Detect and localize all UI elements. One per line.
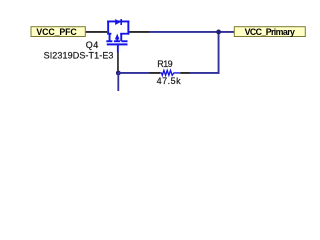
substrate arrow head [115, 34, 120, 40]
right jog [120, 33, 129, 35]
wire R19 to riser [190, 72, 220, 74]
svg-text:VCC_PFC: VCC_PFC [36, 27, 77, 37]
power port VCC_Primary [234, 27, 305, 37]
gate bar [107, 43, 128, 45]
body diode loop top [107, 21, 129, 23]
transistor Q4 [106, 19, 129, 53]
svg-text:47.5k: 47.5k [157, 76, 182, 86]
junction dot at gate/R19 node [116, 71, 121, 76]
body diode cathode bar [120, 19, 122, 25]
resistor R19 body [160, 70, 180, 75]
svg-text:R19: R19 [157, 59, 172, 69]
gate wire down (dark) [117, 53, 119, 72]
junction dot on main rail [216, 30, 221, 35]
drain pin wire (dark) [129, 31, 149, 33]
drain stub [120, 33, 122, 41]
wire junction to R19 [118, 72, 149, 74]
R19 left pin [150, 72, 161, 74]
loop left vertical (source) [107, 21, 109, 35]
R19 right pin [180, 72, 189, 74]
svg-text:Q4: Q4 [86, 40, 99, 50]
channel bar middle [114, 40, 120, 42]
wire stub below node to sheet edge [117, 73, 119, 91]
channel bar right [121, 40, 127, 42]
svg-text:SI2319DS-T1-E3: SI2319DS-T1-E3 [44, 50, 114, 60]
gate pin stub [117, 45, 119, 52]
body diode triangle [115, 19, 120, 25]
wire VCC_PFC to Q4 source [86, 31, 107, 33]
left jog [107, 33, 111, 35]
source stub [109, 33, 111, 41]
svg-text:VCC_Primary: VCC_Primary [245, 27, 295, 37]
channel bar left [106, 40, 112, 42]
substrate arrow shaft [116, 38, 118, 41]
wire drain to VCC_Primary [150, 31, 235, 33]
riser wire up to main rail [218, 32, 220, 74]
loop right vertical (drain) [127, 21, 129, 35]
power port VCC_PFC [31, 27, 85, 37]
